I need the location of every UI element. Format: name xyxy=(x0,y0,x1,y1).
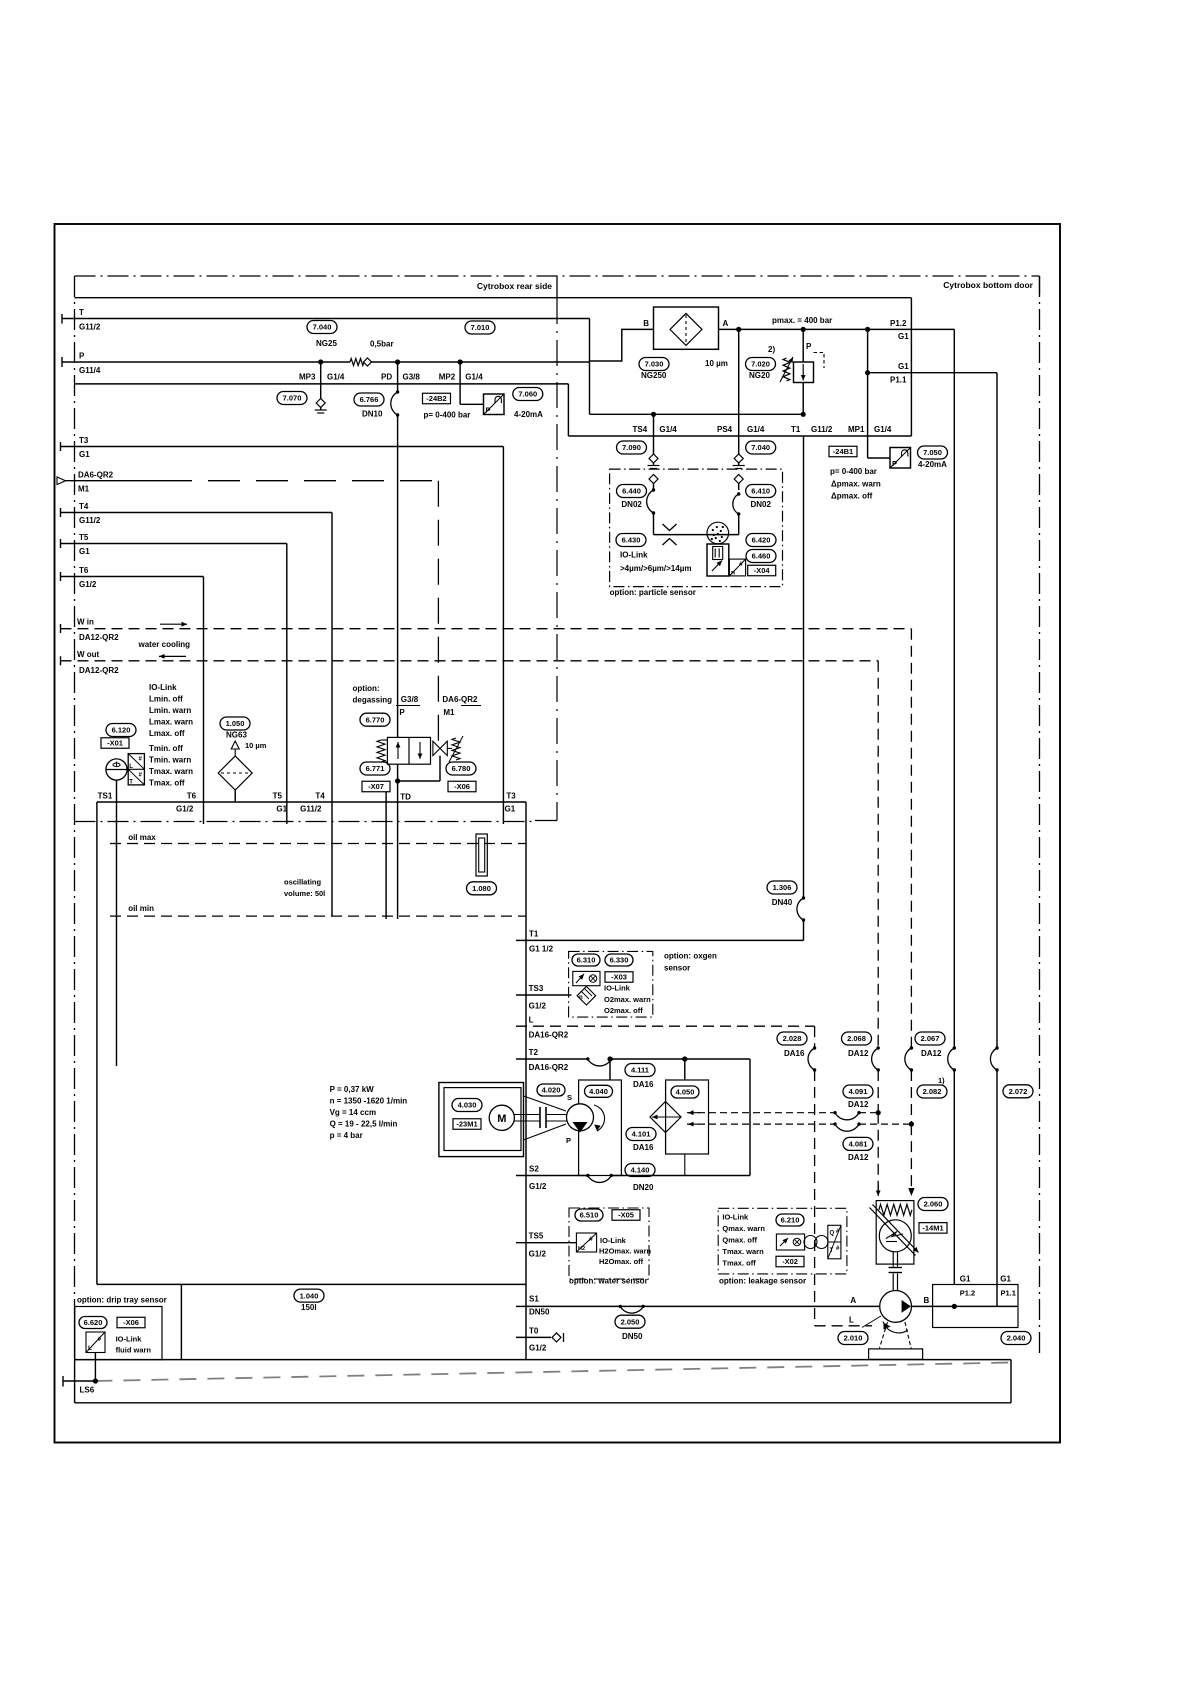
svg-text:IO-Link: IO-Link xyxy=(620,551,648,560)
svg-text:P: P xyxy=(892,459,897,468)
svg-text:P: P xyxy=(806,342,812,351)
svg-text:7.040: 7.040 xyxy=(751,443,770,452)
svg-text:2.068: 2.068 xyxy=(847,1034,866,1043)
svg-text:G1/4: G1/4 xyxy=(747,425,765,434)
svg-text:option: oxgen: option: oxgen xyxy=(664,952,717,961)
svg-text:A: A xyxy=(850,1296,856,1305)
svg-text:T6: T6 xyxy=(187,792,197,801)
svg-text:DN40: DN40 xyxy=(772,898,793,907)
svg-text:T1: T1 xyxy=(529,930,539,939)
svg-text:1.050: 1.050 xyxy=(226,719,245,728)
svg-text:P: P xyxy=(566,1136,571,1145)
svg-text:7.030: 7.030 xyxy=(645,360,664,369)
svg-text:G11/4: G11/4 xyxy=(79,366,101,375)
svg-text:2.010: 2.010 xyxy=(844,1334,863,1343)
svg-text:DA12-QR2: DA12-QR2 xyxy=(79,633,119,642)
svg-text:7.020: 7.020 xyxy=(751,360,770,369)
svg-text:Tmax. off: Tmax. off xyxy=(149,779,185,788)
svg-text:G1: G1 xyxy=(898,362,909,371)
svg-text:pmax. = 400 bar: pmax. = 400 bar xyxy=(772,316,832,325)
svg-text:P1.2: P1.2 xyxy=(960,1289,975,1298)
svg-text:T6: T6 xyxy=(79,566,89,575)
svg-text:G1: G1 xyxy=(79,450,90,459)
svg-text:A: A xyxy=(723,319,729,328)
svg-text:W out: W out xyxy=(77,650,100,659)
svg-text:6.770: 6.770 xyxy=(366,715,385,724)
svg-text:P: P xyxy=(399,708,405,717)
svg-text:G1/2: G1/2 xyxy=(529,1182,547,1191)
svg-text:P1.1: P1.1 xyxy=(890,376,907,385)
svg-text:LS6: LS6 xyxy=(80,1386,95,1395)
svg-text:IO-Link: IO-Link xyxy=(116,1335,143,1344)
svg-text:6.410: 6.410 xyxy=(751,487,770,496)
svg-text:DN50: DN50 xyxy=(529,1308,550,1317)
svg-text:Tmax. warn: Tmax. warn xyxy=(722,1247,764,1256)
svg-text:option:: option: xyxy=(353,684,380,693)
svg-text:T: T xyxy=(79,308,84,317)
svg-text:G3/8: G3/8 xyxy=(403,373,421,382)
svg-text:NG20: NG20 xyxy=(749,371,770,380)
svg-text:G11/2: G11/2 xyxy=(79,323,101,332)
svg-text:DA12: DA12 xyxy=(848,1049,869,1058)
svg-text:H2: H2 xyxy=(578,1246,585,1252)
svg-text:L: L xyxy=(849,1316,854,1325)
svg-text:P = 0,37 kW: P = 0,37 kW xyxy=(330,1085,375,1094)
svg-text:0,5bar: 0,5bar xyxy=(370,340,394,349)
svg-text:option: drip tray sensor: option: drip tray sensor xyxy=(77,1296,167,1305)
svg-text:2.082: 2.082 xyxy=(923,1087,942,1096)
svg-text:G1 1/2: G1 1/2 xyxy=(529,945,554,954)
svg-text:T: T xyxy=(129,780,133,786)
svg-text:-X02: -X02 xyxy=(782,1257,798,1266)
svg-text:O2max. off: O2max. off xyxy=(604,1006,643,1015)
svg-text:Qmax. off: Qmax. off xyxy=(722,1236,757,1245)
svg-text:-14M1: -14M1 xyxy=(922,1224,943,1233)
svg-text:2.072: 2.072 xyxy=(1009,1087,1028,1096)
svg-text:Cytrobox rear side: Cytrobox rear side xyxy=(477,281,552,291)
svg-text:#: # xyxy=(98,1336,102,1343)
svg-text:B: B xyxy=(924,1296,930,1305)
svg-text:2): 2) xyxy=(768,345,775,354)
svg-text:water cooling: water cooling xyxy=(138,640,191,649)
svg-text:#: # xyxy=(739,561,743,568)
svg-text:150l: 150l xyxy=(301,1303,317,1312)
svg-text:4-20mA: 4-20mA xyxy=(918,460,947,469)
svg-text:W in: W in xyxy=(77,618,94,627)
svg-text:-X06: -X06 xyxy=(123,1318,139,1327)
svg-text:TS3: TS3 xyxy=(529,984,544,993)
svg-text:S: S xyxy=(567,1093,572,1102)
svg-text:L: L xyxy=(529,1016,534,1025)
svg-text:DA16-QR2: DA16-QR2 xyxy=(529,1031,569,1040)
svg-text:T5: T5 xyxy=(79,533,89,542)
svg-text:Cytrobox bottom door: Cytrobox bottom door xyxy=(943,280,1033,290)
svg-text:DA16: DA16 xyxy=(633,1080,654,1089)
svg-text:DN20: DN20 xyxy=(633,1183,654,1192)
svg-text:DA6-QR2: DA6-QR2 xyxy=(78,471,114,480)
svg-text:7.090: 7.090 xyxy=(622,443,641,452)
svg-text:DN02: DN02 xyxy=(751,500,772,509)
svg-text:6.430: 6.430 xyxy=(622,536,641,545)
svg-text:IO-Link: IO-Link xyxy=(149,683,177,692)
svg-text:-X01: -X01 xyxy=(107,739,123,748)
svg-text:G3/8: G3/8 xyxy=(401,695,419,704)
svg-text:G1: G1 xyxy=(79,547,90,556)
svg-text:-24B1: -24B1 xyxy=(833,447,853,456)
svg-text:2.040: 2.040 xyxy=(1007,1334,1026,1343)
svg-text:4.081: 4.081 xyxy=(849,1140,868,1149)
svg-text:oscillating: oscillating xyxy=(284,878,322,887)
svg-text:G1/2: G1/2 xyxy=(176,805,194,814)
svg-text:G11/2: G11/2 xyxy=(79,516,101,525)
svg-text:DA16: DA16 xyxy=(633,1143,654,1152)
svg-text:6.310: 6.310 xyxy=(577,956,596,965)
svg-text:Δpmax. off: Δpmax. off xyxy=(831,492,873,501)
svg-text:TD: TD xyxy=(400,793,411,802)
svg-text:oil min: oil min xyxy=(128,904,154,913)
svg-text:Lmin. off: Lmin. off xyxy=(149,695,183,704)
svg-text:10 µm: 10 µm xyxy=(245,741,267,750)
svg-text:n: n xyxy=(579,995,583,1001)
svg-text:oil max: oil max xyxy=(128,833,156,842)
svg-text:L: L xyxy=(129,764,133,770)
svg-text:NG25: NG25 xyxy=(316,339,337,348)
svg-text:T0: T0 xyxy=(529,1327,539,1336)
svg-text:p= 0-400 bar: p= 0-400 bar xyxy=(830,467,877,476)
svg-text:option: particle sensor: option: particle sensor xyxy=(610,588,696,597)
svg-text:degassing: degassing xyxy=(353,696,393,705)
svg-text:Lmax. off: Lmax. off xyxy=(149,729,185,738)
svg-text:G1/4: G1/4 xyxy=(327,373,345,382)
svg-text:DN10: DN10 xyxy=(362,410,383,419)
svg-text:4.140: 4.140 xyxy=(631,1166,650,1175)
svg-text:B: B xyxy=(643,319,649,328)
svg-text:Vg = 14 ccm: Vg = 14 ccm xyxy=(330,1108,376,1117)
svg-text:p= 0-400 bar: p= 0-400 bar xyxy=(424,411,471,420)
svg-text:M: M xyxy=(497,1113,506,1125)
svg-text:-24B2: -24B2 xyxy=(426,394,446,403)
svg-text:7.010: 7.010 xyxy=(471,323,490,332)
svg-text:Qmax. warn: Qmax. warn xyxy=(722,1224,765,1233)
svg-text:P1.2: P1.2 xyxy=(890,319,907,328)
svg-text:G11/2: G11/2 xyxy=(300,805,322,814)
svg-text:S1: S1 xyxy=(529,1295,539,1304)
svg-text:4.111: 4.111 xyxy=(631,1066,649,1075)
svg-text:G1/2: G1/2 xyxy=(529,1002,547,1011)
svg-text:10 µm: 10 µm xyxy=(705,359,728,368)
svg-text:IO-Link: IO-Link xyxy=(600,1236,627,1245)
svg-text:1.306: 1.306 xyxy=(773,883,792,892)
svg-text:-X05: -X05 xyxy=(618,1211,634,1220)
svg-text:6.330: 6.330 xyxy=(610,956,629,965)
svg-text:Tmax. off: Tmax. off xyxy=(722,1259,756,1268)
svg-text:IO-Link: IO-Link xyxy=(722,1213,749,1222)
svg-text:7.060: 7.060 xyxy=(518,390,537,399)
svg-text:#: # xyxy=(589,1236,593,1243)
svg-text:2.060: 2.060 xyxy=(924,1200,943,1209)
svg-text:P1.1: P1.1 xyxy=(1001,1289,1016,1298)
svg-text:4.040: 4.040 xyxy=(589,1087,608,1096)
svg-text:-X03: -X03 xyxy=(611,973,627,982)
svg-text:1.040: 1.040 xyxy=(300,1291,319,1300)
svg-text:T2: T2 xyxy=(529,1048,539,1057)
svg-text:Δpmax. warn: Δpmax. warn xyxy=(831,480,881,489)
svg-text:Q: Q xyxy=(830,1231,835,1237)
svg-text:H2Omax. warn: H2Omax. warn xyxy=(599,1247,652,1256)
svg-text:G1: G1 xyxy=(505,805,516,814)
svg-text:O2max. warn: O2max. warn xyxy=(604,995,651,1004)
svg-text:option: water sensor: option: water sensor xyxy=(569,1277,648,1286)
svg-text:P: P xyxy=(79,352,85,361)
svg-text:G1: G1 xyxy=(898,332,909,341)
svg-text:G1/2: G1/2 xyxy=(529,1344,547,1353)
svg-text:T1: T1 xyxy=(791,425,801,434)
svg-text:G11/2: G11/2 xyxy=(811,425,833,434)
svg-text:S2: S2 xyxy=(529,1165,539,1174)
svg-text:IO-Link: IO-Link xyxy=(604,984,631,993)
svg-text:DA16-QR2: DA16-QR2 xyxy=(529,1063,569,1072)
svg-text:2.028: 2.028 xyxy=(783,1034,802,1043)
svg-text:T4: T4 xyxy=(79,502,89,511)
svg-text:6.620: 6.620 xyxy=(84,1318,103,1327)
svg-text:6.510: 6.510 xyxy=(580,1211,599,1220)
svg-text:G1/4: G1/4 xyxy=(659,425,677,434)
svg-text:DA16: DA16 xyxy=(784,1049,805,1058)
svg-text:6.120: 6.120 xyxy=(112,726,131,735)
svg-text:4.020: 4.020 xyxy=(542,1086,561,1095)
svg-text:Tmin. off: Tmin. off xyxy=(149,744,183,753)
svg-text:Lmin. warn: Lmin. warn xyxy=(149,706,191,715)
svg-text:MP2: MP2 xyxy=(439,373,456,382)
svg-text:TS4: TS4 xyxy=(633,425,648,434)
svg-text:n = 1350 -1620 1/min: n = 1350 -1620 1/min xyxy=(330,1097,408,1106)
svg-text:4.050: 4.050 xyxy=(676,1088,695,1097)
svg-text:TS5: TS5 xyxy=(529,1232,544,1241)
svg-text:TS1: TS1 xyxy=(98,792,113,801)
svg-text:DA6-QR2: DA6-QR2 xyxy=(442,695,478,704)
svg-text:T4: T4 xyxy=(315,792,325,801)
svg-text:Tmax. warn: Tmax. warn xyxy=(149,767,193,776)
svg-text:H2Omax. off: H2Omax. off xyxy=(599,1257,644,1266)
svg-text:DA12: DA12 xyxy=(848,1153,869,1162)
svg-text:n: n xyxy=(731,570,735,577)
svg-text:sensor: sensor xyxy=(664,964,690,973)
svg-text:-X06: -X06 xyxy=(454,782,470,791)
svg-text:-23M1: -23M1 xyxy=(456,1120,477,1129)
svg-text:1): 1) xyxy=(938,1076,945,1085)
svg-text:L: L xyxy=(88,1345,92,1352)
svg-text:PS4: PS4 xyxy=(717,425,733,434)
svg-text:6.210: 6.210 xyxy=(781,1216,800,1225)
svg-text:1.080: 1.080 xyxy=(472,884,491,893)
svg-text:6.766: 6.766 xyxy=(360,395,379,404)
svg-text:T3: T3 xyxy=(506,792,516,801)
svg-text:G1: G1 xyxy=(960,1275,971,1284)
svg-text:MP3: MP3 xyxy=(299,373,316,382)
svg-text:DA12: DA12 xyxy=(848,1100,869,1109)
svg-text:P: P xyxy=(486,406,491,415)
svg-text:-X07: -X07 xyxy=(368,782,384,791)
svg-text:>4µm/>6µm/>14µm: >4µm/>6µm/>14µm xyxy=(620,564,691,573)
svg-text:2.067: 2.067 xyxy=(921,1034,940,1043)
svg-text:6.780: 6.780 xyxy=(452,764,471,773)
svg-text:6.440: 6.440 xyxy=(622,487,641,496)
svg-text:G1/4: G1/4 xyxy=(874,425,892,434)
svg-text:4.030: 4.030 xyxy=(458,1101,477,1110)
svg-text:6.771: 6.771 xyxy=(366,764,385,773)
svg-text:M1: M1 xyxy=(78,485,90,494)
svg-text:p = 4 bar: p = 4 bar xyxy=(330,1131,363,1140)
svg-text:Q = 19 - 22,5 l/min: Q = 19 - 22,5 l/min xyxy=(330,1120,398,1129)
svg-text:NG63: NG63 xyxy=(226,731,247,740)
svg-text:G1/2: G1/2 xyxy=(79,580,97,589)
svg-text:G1: G1 xyxy=(1000,1275,1011,1284)
svg-text:MP1: MP1 xyxy=(848,425,865,434)
svg-text:option: leakage sensor: option: leakage sensor xyxy=(719,1277,806,1286)
svg-text:NG250: NG250 xyxy=(641,371,667,380)
svg-text:7.070: 7.070 xyxy=(283,394,302,403)
svg-text:DN02: DN02 xyxy=(621,500,642,509)
svg-text:G1/4: G1/4 xyxy=(465,373,483,382)
svg-text:4.091: 4.091 xyxy=(849,1087,868,1096)
svg-text:G1/2: G1/2 xyxy=(529,1250,547,1259)
svg-text:DA12-QR2: DA12-QR2 xyxy=(79,666,119,675)
svg-text:fluid warn: fluid warn xyxy=(116,1346,152,1355)
svg-text:DN50: DN50 xyxy=(622,1332,643,1341)
svg-text:4-20mA: 4-20mA xyxy=(514,410,543,419)
svg-text:PD: PD xyxy=(381,373,392,382)
svg-text:2.050: 2.050 xyxy=(621,1317,640,1326)
svg-text:-X04: -X04 xyxy=(754,566,771,575)
svg-text:6.420: 6.420 xyxy=(752,536,771,545)
svg-text:M1: M1 xyxy=(443,708,455,717)
svg-text:6.460: 6.460 xyxy=(752,552,771,561)
svg-text:G1: G1 xyxy=(276,805,287,814)
svg-text:7.040: 7.040 xyxy=(313,323,332,332)
svg-text:7.050: 7.050 xyxy=(923,448,942,457)
svg-text:Tmin. warn: Tmin. warn xyxy=(149,756,191,765)
svg-text:DA12: DA12 xyxy=(921,1049,942,1058)
svg-text:T3: T3 xyxy=(79,436,89,445)
svg-text:Lmax. warn: Lmax. warn xyxy=(149,718,193,727)
svg-text:4.101: 4.101 xyxy=(632,1130,651,1139)
svg-text:T5: T5 xyxy=(273,792,283,801)
svg-text:volume: 50l: volume: 50l xyxy=(284,889,325,898)
